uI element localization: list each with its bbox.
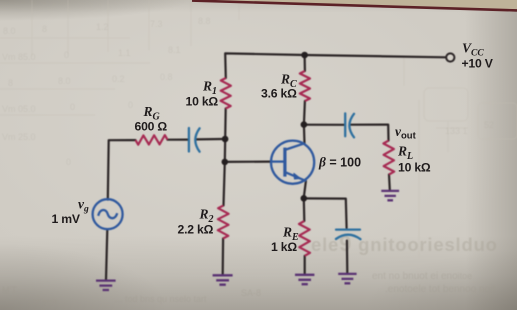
svg-text:1.1: 1.1 — [118, 48, 131, 58]
svg-text:7.3: 7.3 — [150, 19, 163, 29]
svg-text:Vm 85.0: Vm 85.0 — [2, 52, 36, 62]
wire: output cap to RL — [351, 125, 390, 190]
resistor RE — [299, 221, 310, 256]
ground (RL) — [381, 191, 399, 200]
node: collector junction — [301, 121, 308, 128]
ground (bypass cap) — [338, 274, 356, 283]
wire: R1 bottom to base node column — [224, 109, 227, 162]
svg-text:... tod bns qu nselo tart: ... tod bns qu nselo tart — [115, 294, 207, 304]
svg-text:vout: vout — [395, 124, 417, 142]
wire: top supply rail — [225, 53, 446, 78]
resistor RG — [136, 135, 168, 145]
svg-text:ai noit: ai noit — [33, 297, 58, 307]
svg-text:8.8: 8.8 — [198, 16, 211, 26]
node: base junction — [222, 159, 229, 166]
svg-text:8.0: 8.0 — [3, 26, 16, 36]
svg-text:8: 8 — [42, 24, 47, 34]
svg-text:0: 0 — [66, 157, 71, 167]
svg-text:RG: RG — [143, 104, 161, 123]
svg-text:3.6 kΩ: 3.6 kΩ — [261, 87, 297, 101]
wire: emitter node to bypass cap column — [304, 198, 348, 272]
wire: source column / RG left — [106, 140, 136, 280]
svg-text:8: 8 — [8, 78, 13, 88]
node: input cap / R1 / R2 junction — [222, 136, 229, 143]
wire: emitter node to RE — [303, 198, 306, 273]
maroon top rule — [192, 1, 517, 11]
svg-text:RL: RL — [397, 144, 413, 163]
svg-text:R1: R1 — [202, 79, 217, 98]
svg-text:ent no bnuot ei enoitoe: ent no bnuot ei enoitoe — [372, 271, 472, 282]
svg-text:0: 0 — [64, 50, 69, 60]
svg-text:R2: R2 — [199, 207, 214, 226]
tan page-top strip — [192, 0, 517, 10]
svg-text:0.2: 0.2 — [112, 74, 125, 84]
capacitor input coupling — [189, 128, 200, 152]
svg-text:52: 52 — [484, 120, 494, 130]
svg-text:+10 V: +10 V — [462, 57, 494, 71]
svg-text:VCC: VCC — [462, 41, 484, 59]
svg-text:ele9 gnitoorieslduo: ele9 gnitoorieslduo — [311, 231, 498, 256]
svg-text:1 mV: 1 mV — [52, 212, 81, 226]
wire: base lead — [225, 161, 272, 163]
svg-text:133 1: 133 1 — [445, 126, 468, 136]
svg-text:vg: vg — [78, 197, 89, 215]
big mirrored heading showing through — [311, 231, 498, 256]
svg-text:.enotoele tot bennoo noit: .enotoele tot bennoo noit — [385, 284, 495, 295]
terminal VCC (open circle) — [446, 53, 454, 61]
wire: RG right to input cap — [168, 139, 189, 141]
resistor RL — [383, 141, 394, 175]
capacitor output coupling — [345, 113, 354, 137]
ground (RE) — [295, 275, 314, 284]
source vg (sine source) — [93, 199, 123, 229]
svg-text:β = 100: β = 100 — [318, 155, 361, 170]
svg-text:RC: RC — [280, 72, 297, 91]
svg-text:0: 0 — [70, 102, 75, 112]
wire: input cap to base node — [197, 138, 222, 141]
svg-text:600 Ω: 600 Ω — [135, 120, 168, 134]
svg-text:Vm 05.0: Vm 05.0 — [2, 104, 36, 114]
node: supply/RC junction — [301, 52, 308, 59]
resistor RC — [300, 71, 310, 101]
resistor R1 — [221, 78, 231, 109]
svg-text:Vm 25.0: Vm 25.0 — [2, 132, 36, 142]
svg-text:0: 0 — [128, 100, 133, 110]
node: emitter junction — [301, 195, 308, 202]
wire: base column to R2 top — [224, 162, 225, 206]
svg-text:1.2: 1.2 — [96, 22, 109, 32]
svg-text:RE: RE — [282, 225, 299, 244]
ground (R2) — [213, 275, 233, 284]
svg-text:8.1: 8.1 — [168, 45, 181, 55]
wire: R2 bottom to ground — [222, 239, 225, 275]
transistor Q1 — [271, 141, 314, 184]
junction dots — [222, 52, 308, 202]
svg-text:10 kΩ: 10 kΩ — [186, 95, 219, 109]
svg-text:SA-8: SA-8 — [241, 288, 261, 298]
svg-text:8.0: 8.0 — [58, 76, 71, 86]
wire: emitter down to node — [304, 181, 306, 197]
svg-text:0.8: 0.8 — [160, 72, 173, 82]
svg-text:10 kΩ: 10 kΩ — [398, 161, 431, 175]
capacitor emitter bypass — [336, 230, 361, 240]
ground (source) — [96, 281, 116, 290]
wire: collector node to output cap — [304, 124, 344, 126]
svg-text:2.2 kΩ: 2.2 kΩ — [178, 223, 214, 237]
svg-text:1 kΩ: 1 kΩ — [271, 240, 297, 254]
wire: collector column — [304, 55, 305, 144]
resistor R2 — [218, 206, 229, 239]
svg-text:M'T: M'T — [2, 285, 17, 295]
